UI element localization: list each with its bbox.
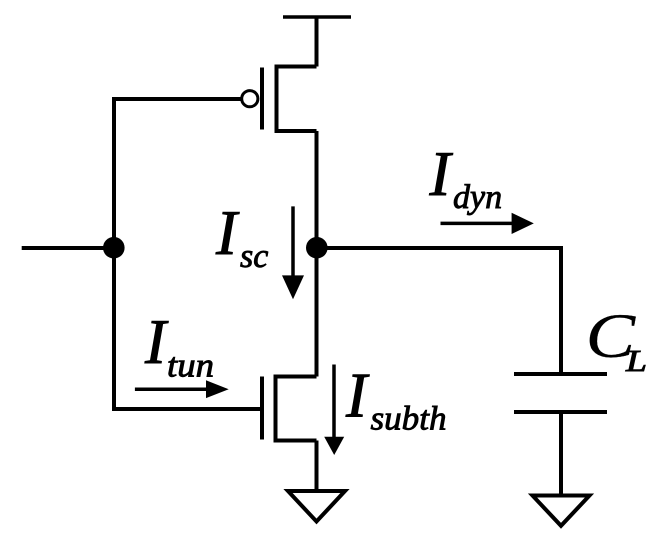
wire capacitor to ground (559, 412, 563, 495)
label Isubth (345, 361, 447, 438)
ground (left) (288, 491, 345, 522)
svg-text:I: I (215, 198, 240, 268)
arrow Isubth (down) (324, 365, 344, 456)
arrow Isc (down) (282, 206, 304, 299)
VDD rail (283, 15, 351, 19)
label Idyn (429, 139, 503, 216)
wire output horizontal (317, 246, 562, 250)
PMOS drain terminal (277, 129, 317, 133)
wire PMOS drain to NMOS drain (315, 131, 319, 377)
PMOS channel bar (275, 65, 279, 134)
svg-text:tun: tun (167, 348, 214, 385)
svg-text:I: I (345, 361, 370, 431)
PMOS bubble (242, 91, 258, 107)
NMOS gate bar (260, 377, 264, 440)
ground (right) (533, 496, 590, 526)
NMOS drain terminal (276, 375, 317, 379)
wire output to capacitor (559, 246, 563, 374)
PMOS source terminal (277, 65, 317, 69)
arrow Itun (right) (135, 380, 229, 398)
wire NMOS source to ground (315, 441, 319, 492)
wire gate loop: PMOS gate to left rail to NMOS gate (114, 99, 260, 409)
NMOS channel bar (274, 375, 278, 443)
node input junction (103, 237, 125, 259)
label CL (586, 301, 647, 378)
CL top plate (514, 372, 607, 376)
label Isc (215, 198, 268, 275)
capacitor CL (514, 374, 607, 412)
wire input (22, 246, 114, 250)
node output junction (306, 237, 328, 259)
arrow Idyn (right) (441, 213, 534, 234)
transistor M1 (PMOS) (242, 65, 317, 134)
svg-text:L: L (625, 343, 647, 378)
transistor M2 (NMOS) (262, 375, 317, 443)
svg-text:I: I (144, 307, 169, 377)
wire VDD to PMOS source (315, 16, 319, 67)
svg-text:sc: sc (240, 238, 268, 275)
svg-text:subth: subth (371, 401, 447, 438)
svg-text:I: I (429, 139, 454, 209)
PMOS gate bar (260, 68, 264, 130)
NMOS source terminal (276, 439, 317, 443)
label Itun (144, 307, 214, 385)
svg-text:dyn: dyn (453, 179, 502, 216)
CL bottom plate (514, 410, 607, 414)
